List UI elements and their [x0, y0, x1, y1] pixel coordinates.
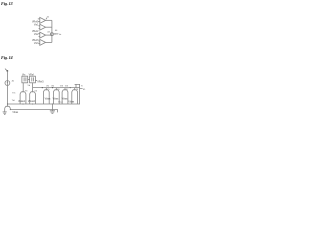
- svg-text:41: 41: [83, 89, 86, 91]
- wire rail end tick: [57, 110, 59, 113]
- svg-text:Vbias2: Vbias2: [28, 101, 36, 103]
- transistor Q4: [30, 88, 36, 104]
- svg-text:44: 44: [55, 30, 58, 32]
- svg-text:43: 43: [47, 32, 50, 34]
- svg-text:VRef1: VRef1: [32, 22, 39, 24]
- transistor Q6: [53, 88, 59, 104]
- svg-text:40: 40: [12, 80, 15, 82]
- wire right vertical: [79, 89, 81, 104]
- transistor Q2 box: [30, 76, 36, 83]
- comparator U2 output wire: [46, 26, 52, 28]
- transistor Q7: [62, 88, 68, 104]
- transistor Q9: [5, 104, 11, 112]
- comparator U1 output wire: [46, 19, 52, 21]
- wire left vertical lower: [6, 85, 8, 104]
- comparator U3 output wire: [46, 34, 52, 36]
- comparator U4: [40, 39, 46, 45]
- node 44 circle: [50, 33, 53, 36]
- svg-text:Vbias: Vbias: [62, 99, 69, 101]
- svg-text:T3: T3: [25, 90, 28, 92]
- svg-text:T4: T4: [34, 90, 37, 92]
- comparator U4 output wire: [46, 41, 52, 43]
- comparator U2 input stubs: [39, 26, 40, 29]
- wire mid rail: [33, 87, 81, 89]
- wire ground stem: [51, 104, 53, 111]
- svg-text:VRef3: VRef3: [32, 40, 39, 42]
- svg-text:VRef2: VRef2: [32, 31, 39, 33]
- output wire with arrow: [54, 33, 58, 35]
- svg-text:Fig. 13: Fig. 13: [1, 1, 14, 6]
- transistor Q5: [43, 88, 49, 104]
- svg-text:Vbias: Vbias: [68, 101, 75, 103]
- comparator U1: [40, 17, 46, 23]
- svg-text:Vbias: Vbias: [12, 112, 19, 114]
- svg-text:Vbias1: Vbias1: [18, 101, 26, 103]
- svg-text:Tr6: Tr6: [12, 100, 16, 102]
- wire left vertical: [6, 71, 8, 81]
- svg-text:Fig. 14: Fig. 14: [1, 55, 13, 60]
- node dot A: [42, 87, 43, 88]
- comparator U3: [40, 32, 46, 38]
- input terminal node: [5, 69, 7, 71]
- svg-text:Vbias: Vbias: [53, 99, 60, 101]
- wire lower rail: [10, 109, 58, 111]
- svg-text:Vo: Vo: [59, 34, 62, 36]
- svg-text:Vb: Vb: [28, 85, 31, 87]
- label 42: [46, 18, 47, 20]
- transistor Q1 box: [22, 76, 28, 83]
- comparator U2: [40, 24, 46, 30]
- svg-text:Vbias: Vbias: [45, 99, 52, 101]
- svg-text:Tr: Tr: [81, 86, 83, 88]
- svg-text:Tr5: Tr5: [12, 93, 16, 95]
- comparator U3 input stubs: [39, 34, 40, 37]
- current source I1: [5, 81, 10, 86]
- ground 2: [50, 111, 55, 114]
- wire VRef3 stub: [35, 80, 37, 82]
- comparator U4 input stubs: [39, 41, 40, 44]
- wire box drops: [23, 83, 32, 92]
- transistor Q8: [72, 88, 78, 104]
- comparator U1 input stubs: [38, 19, 40, 22]
- wire output branch: [75, 84, 83, 88]
- node dots bottom: [22, 103, 23, 104]
- output bus wire: [51, 20, 53, 42]
- svg-text:Vss1: Vss1: [58, 102, 64, 104]
- svg-text:Vin3: Vin3: [34, 43, 39, 45]
- svg-text:Vin1: Vin1: [34, 25, 39, 27]
- svg-text:42: 42: [47, 17, 50, 19]
- ground: [3, 112, 7, 115]
- transistor Q3: [20, 91, 26, 104]
- svg-text:VRef3: VRef3: [37, 82, 44, 84]
- wire bottom rail: [7, 103, 80, 105]
- wire box link: [28, 79, 30, 81]
- svg-text:Vin2: Vin2: [34, 34, 39, 36]
